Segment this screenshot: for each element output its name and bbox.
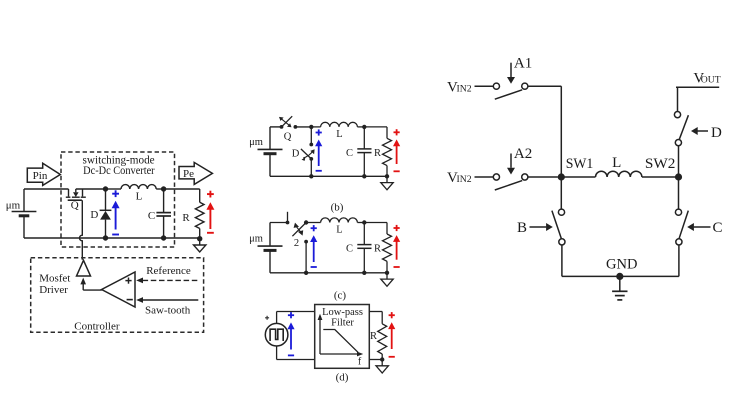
wire: A2 to SW1 <box>528 176 558 178</box>
svg-text:Saw-tooth: Saw-tooth <box>145 304 191 316</box>
switch D (right) <box>675 140 681 146</box>
wire: inductor to SW2 <box>642 176 679 178</box>
inductor L (circuit b) <box>311 126 320 128</box>
wire: top rail MOSFET to node A <box>76 188 106 190</box>
svg-text:(c): (c) <box>334 290 347 302</box>
svg-text:Q: Q <box>284 132 292 143</box>
svg-text:OUT: OUT <box>701 75 721 86</box>
wire: c R bottom lead <box>386 261 388 273</box>
wire: switch C to bottom rail <box>678 245 680 277</box>
dashed box: switching-mode Dc-Dc Converter <box>61 152 175 247</box>
wire: c top rail to stub <box>270 222 288 224</box>
svg-text:μm: μm <box>249 137 263 148</box>
svg-text:Pe: Pe <box>183 168 194 180</box>
junction: GND node <box>616 273 623 280</box>
ground (left circuit) <box>199 239 201 245</box>
svg-text:Driver: Driver <box>39 284 68 296</box>
junction: c R bottom <box>385 271 389 275</box>
transistor Q (MOSFET) <box>66 189 86 200</box>
svg-text:μm: μm <box>6 200 21 212</box>
voltage arrow (blue) circuit d <box>290 312 292 318</box>
svg-text:SW1: SW1 <box>566 156 594 172</box>
junction: b R bottom <box>385 174 389 178</box>
wire: top rail battery to MOSFET drain <box>24 188 69 190</box>
junction: c contact2 bottom <box>304 271 308 275</box>
svg-text:Filter: Filter <box>331 318 354 329</box>
voltage arrow (red) circuit d <box>391 312 393 318</box>
ground symbol (right) <box>619 276 621 291</box>
svg-text:(d): (d) <box>336 372 349 384</box>
junction: d R bottom <box>380 357 384 361</box>
svg-text:R: R <box>374 148 381 159</box>
svg-text:L: L <box>612 155 621 171</box>
capacitor C (left) <box>163 189 165 213</box>
svg-text:Pin: Pin <box>33 170 48 182</box>
battery um (left source) <box>23 189 25 212</box>
svg-text:L: L <box>336 129 342 140</box>
wire: b switch to node top <box>295 126 311 128</box>
wire: switch D to VOUT <box>677 87 679 111</box>
wire: d source top to filter <box>276 312 278 324</box>
junction: c C bottom <box>362 271 366 275</box>
capacitor C (circuit c) <box>363 223 365 245</box>
Reference input (dashed) with arrow <box>143 279 199 281</box>
svg-text:GND: GND <box>606 257 637 273</box>
svg-text:A1: A1 <box>514 55 532 71</box>
node B (after L) <box>161 186 166 191</box>
junction: b C bottom <box>362 174 366 178</box>
svg-text:R: R <box>182 212 190 224</box>
wire: comparator output to buffer <box>83 289 102 291</box>
op-amp comparator <box>102 272 135 307</box>
svg-text:IN2: IN2 <box>457 174 472 185</box>
buffer (driver) triangle <box>77 260 91 276</box>
label + (source d) <box>265 317 269 319</box>
ground (circuit d) <box>381 360 383 366</box>
wire: bottom rail (right circuit) <box>562 275 679 277</box>
block arrow Pe <box>179 162 212 184</box>
svg-text:C: C <box>148 210 155 222</box>
Saw-tooth input with arrow <box>143 299 199 301</box>
battery um (circuit c) <box>269 223 271 247</box>
svg-text:D: D <box>292 149 300 160</box>
switch B <box>558 209 564 215</box>
voltage arrow (blue) across D <box>115 190 117 197</box>
arrow into buffer <box>80 278 86 285</box>
wire: c node to R <box>364 222 387 224</box>
resistor R (circuit c) <box>383 234 392 261</box>
node A (diode top) <box>103 186 108 191</box>
resistor R (circuit d) <box>378 324 387 354</box>
junction: D bottom <box>103 235 108 240</box>
svg-text:L: L <box>136 191 143 203</box>
wire: VOUT rail <box>676 86 719 88</box>
wire: contact 2 to bottom rail <box>305 242 307 273</box>
dashed box: Controller <box>31 258 204 333</box>
voltage arrow (red) circuit c <box>396 225 398 231</box>
svg-text:Reference: Reference <box>146 265 191 277</box>
svg-text:C: C <box>713 220 723 236</box>
wire: c bottom rail <box>270 272 387 274</box>
svg-text:Controller: Controller <box>74 320 120 332</box>
wire: R bottom lead <box>199 229 201 239</box>
label - (comparator) <box>127 299 133 301</box>
wire: A1 to SW1 node (top route) <box>528 85 562 87</box>
svg-text:SW2: SW2 <box>645 156 676 172</box>
square-wave source (circuit d) <box>265 323 288 346</box>
wire: VIN2-A2 lead <box>475 176 494 178</box>
wire: SW1 to inductor <box>561 176 595 178</box>
battery um (circuit b) <box>269 127 271 149</box>
wire: SW2 up to switch D <box>678 146 680 177</box>
svg-text:IN2: IN2 <box>457 83 472 94</box>
switch C <box>675 209 681 215</box>
wire: gate line with hop <box>80 200 83 260</box>
wire: SW1 down to switch B <box>560 177 562 209</box>
inductor L (circuit c) <box>306 222 321 224</box>
svg-text:2: 2 <box>294 238 299 249</box>
svg-text:Mosfet: Mosfet <box>39 273 70 285</box>
inductor L (left) <box>106 188 122 190</box>
svg-text:B: B <box>517 220 527 236</box>
wire: bottom rail (left circuit) <box>24 237 200 239</box>
svg-text:A2: A2 <box>514 146 532 162</box>
capacitor C (circuit b) <box>363 127 365 149</box>
svg-text:L: L <box>336 225 342 236</box>
resistor R (load, left) <box>195 202 204 228</box>
junction: C bottom <box>161 235 166 240</box>
ground (circuit b) <box>386 176 388 182</box>
wire: d source bottom to filter <box>276 346 278 360</box>
switch Q (circuit b) <box>280 125 284 129</box>
svg-text:Q: Q <box>71 200 79 212</box>
switch SPDT (circuit c) <box>287 212 289 223</box>
curve: low-pass response <box>323 330 358 353</box>
resistor R (circuit b) <box>383 138 392 165</box>
wire: filter to R (circuit d) <box>369 311 382 313</box>
svg-text:Low-pass: Low-pass <box>322 307 363 318</box>
wire: node B to load R <box>164 188 200 190</box>
wire: b R bottom lead <box>386 166 388 177</box>
box: Low-pass Filter <box>315 305 370 369</box>
svg-text:(b): (b) <box>331 202 344 214</box>
svg-text:C: C <box>346 244 353 255</box>
switch A1 <box>493 83 499 89</box>
voltage arrow (red) across R <box>209 191 211 198</box>
svg-text:Dc-Dc Converter: Dc-Dc Converter <box>83 165 155 177</box>
switch A2 <box>493 174 499 180</box>
svg-text:D: D <box>711 125 722 141</box>
junction: b D bottom <box>309 174 313 178</box>
svg-text:μm: μm <box>249 234 263 245</box>
label + (comparator) <box>125 280 131 282</box>
voltage arrow (blue) circuit c <box>313 225 315 231</box>
block arrow Pin <box>27 163 60 185</box>
wire: b node to R <box>364 126 387 128</box>
wire: b top rail to switch Q <box>270 126 282 128</box>
switch D (circuit b) <box>310 127 312 145</box>
voltage arrow (red) circuit b <box>396 129 398 135</box>
wire: SW2 down to switch C <box>678 177 680 209</box>
node: b top junction <box>309 125 313 129</box>
node: c after L <box>362 220 366 224</box>
wire: switch B to bottom rail <box>561 245 563 277</box>
diode D (freewheeling) <box>105 189 107 210</box>
node: b after L <box>362 125 366 129</box>
svg-text:R: R <box>370 331 377 342</box>
wire: d R bottom and filter bottom <box>381 354 383 360</box>
svg-text:C: C <box>346 148 353 159</box>
node SW1 <box>558 173 565 180</box>
inductor L (right) <box>596 171 642 177</box>
wire: VIN2-A1 lead <box>475 85 494 87</box>
svg-text:R: R <box>374 244 381 255</box>
svg-text:D: D <box>90 209 98 221</box>
node SW2 <box>675 173 682 180</box>
ground (circuit c) <box>386 273 388 279</box>
junction: R bottom <box>197 236 202 241</box>
voltage arrow (blue) circuit b <box>318 129 320 135</box>
graph axes (filter) <box>319 318 321 355</box>
wire: b bottom rail <box>270 175 387 177</box>
contact 2 (circuit c) <box>304 240 308 244</box>
